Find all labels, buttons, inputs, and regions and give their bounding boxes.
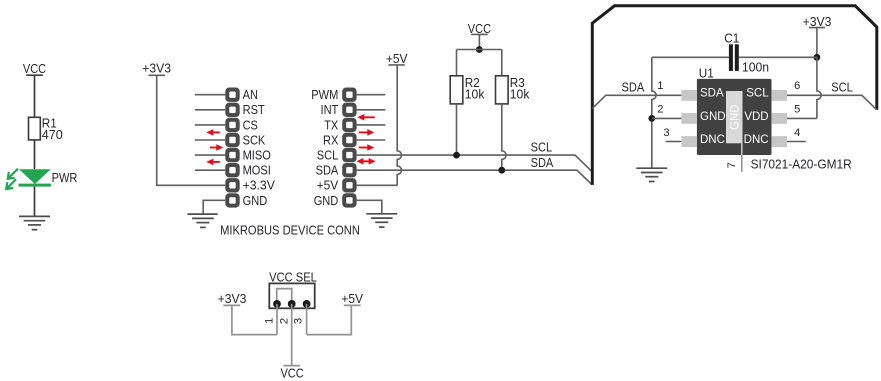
net VCC (power label below jumper)	[280, 366, 303, 381]
svg-text:INT: INT	[321, 102, 339, 117]
chip U1 pad pin6	[771, 90, 787, 101]
net SCL wire (mikrobus to bubble edge)	[357, 155, 592, 171]
node +3V3 rail junction	[814, 54, 821, 61]
svg-text:VCC: VCC	[280, 366, 303, 381]
node R2-SCL junction	[453, 152, 460, 159]
svg-text:7: 7	[726, 162, 738, 168]
svg-text:5: 5	[794, 104, 800, 116]
net VCC (power label over R2 R3)	[468, 21, 491, 36]
connector pin INT (right)	[342, 103, 356, 117]
resistor R1	[29, 116, 63, 142]
direction arrow MOSI (red, left)	[206, 159, 220, 166]
wire top rail right of C1	[739, 56, 817, 58]
direction arrow SDA (red, both ways)	[356, 158, 375, 165]
wire pin 5	[787, 117, 817, 119]
svg-text:MISO: MISO	[243, 148, 271, 163]
wire rail R2-R3	[457, 49, 502, 51]
svg-text:+3V3: +3V3	[218, 291, 247, 306]
wire R2 to SCL	[456, 104, 458, 155]
wire jumper pin 2 down	[291, 304, 293, 366]
capacitor C1	[724, 30, 769, 74]
net +3V3 (power label in bubble)	[803, 14, 832, 29]
svg-text:SCL: SCL	[317, 148, 339, 163]
svg-text:1: 1	[263, 318, 275, 324]
jumper pin 2 dot	[288, 300, 296, 308]
pin labels left column	[243, 87, 276, 208]
svg-text:6: 6	[794, 80, 800, 92]
wire VDD net vertical (hops over SCL)	[817, 57, 821, 118]
svg-text:U1: U1	[699, 66, 714, 81]
jumper pin 1 dot	[273, 300, 281, 308]
svg-text:+3V3: +3V3	[142, 61, 171, 76]
connector pin RST (left)	[225, 103, 239, 117]
chip U1 pad pin3	[681, 136, 697, 147]
wire VCC to rail	[478, 34, 480, 49]
svg-text:+3V3: +3V3	[803, 14, 832, 29]
pin labels right column	[311, 87, 338, 208]
ground (mikrobus left)	[187, 214, 217, 227]
svg-text:4: 4	[794, 127, 800, 139]
connector pin +3.3V (left)	[225, 178, 239, 192]
svg-text:10k: 10k	[465, 87, 485, 102]
resistor R3	[496, 75, 530, 104]
svg-text:+5V: +5V	[317, 178, 339, 193]
svg-text:+3.3V: +3.3V	[243, 178, 276, 193]
jumper pin 3 dot	[303, 300, 311, 308]
wire stub MISO	[195, 154, 226, 156]
direction arrow SCK (red, left)	[206, 129, 220, 136]
connector pin +5V (right)	[342, 178, 356, 192]
svg-text:PWM: PWM	[311, 87, 338, 102]
svg-text:GND: GND	[729, 104, 741, 130]
svg-text:MIKROBUS DEVICE CONN: MIKROBUS DEVICE CONN	[220, 222, 360, 237]
node GND-pin2 junction	[648, 115, 655, 122]
direction arrow TX (red, left)	[357, 114, 375, 121]
wire +3V3 to pin +3.3V	[157, 75, 226, 185]
connector pin MISO (left)	[225, 148, 239, 162]
svg-text:CS: CS	[243, 117, 259, 132]
wire stub RST	[195, 109, 226, 111]
connector pins left column (8 pads)	[0, 0, 1, 1]
wire LED to ground	[34, 187, 36, 217]
svg-text:SCL: SCL	[831, 80, 853, 95]
svg-text:1: 1	[657, 80, 663, 92]
svg-text:+5V: +5V	[386, 51, 408, 66]
svg-text:DNC: DNC	[744, 134, 769, 146]
svg-text:2: 2	[657, 104, 663, 116]
wire stub CS	[195, 124, 226, 126]
connector pin SDA (right)	[342, 163, 356, 177]
net +3V3 (power label at jumper)	[218, 291, 247, 306]
direction arrow RX (red, right)	[359, 129, 375, 136]
net VCC (power label)	[23, 61, 46, 76]
wire rail to R2	[456, 50, 458, 76]
connector pin GND (left)	[225, 193, 239, 207]
node VCC rail junction	[476, 46, 483, 53]
svg-text:470: 470	[42, 127, 63, 142]
direction arrow MISO (red, right)	[210, 144, 224, 151]
resistor R2	[450, 75, 485, 104]
bubble torn-page outline	[592, 6, 877, 185]
svg-text:GND: GND	[314, 193, 339, 208]
wire GND pin to ground (right)	[357, 200, 382, 214]
svg-text:MOSI: MOSI	[243, 163, 271, 178]
wire pin 7 (thermal pad down)	[741, 143, 743, 155]
svg-text:SI7021-A20-GM1R: SI7021-A20-GM1R	[751, 157, 852, 172]
wire R3 to SDA (hops over SCL)	[502, 104, 506, 170]
wire pin 3 stub	[666, 141, 682, 143]
wire pin3 to +5V	[307, 305, 352, 334]
wire +3V3 down to top rail	[816, 28, 818, 58]
svg-text:3: 3	[663, 127, 669, 139]
net +5V (power label at jumper)	[341, 291, 363, 306]
wire jumper pin 1 down	[276, 304, 278, 335]
net +3V3 (power label)	[142, 61, 171, 76]
ground (mikrobus right)	[366, 214, 397, 227]
svg-text:100n: 100n	[742, 60, 769, 75]
connector pin GND (right)	[342, 193, 356, 207]
connector pin MOSI (left)	[225, 163, 239, 177]
svg-text:VDD: VDD	[744, 111, 768, 123]
chip U1 pad pin4	[771, 136, 787, 147]
net SDA inside (edge to pin 1)	[592, 95, 681, 108]
wire top rail left of C1	[652, 56, 729, 58]
connector pin CS (left)	[225, 118, 239, 132]
chip U1 pad pin1	[681, 90, 697, 101]
svg-text:VCC: VCC	[468, 21, 491, 36]
connector pin AN (left)	[225, 88, 239, 102]
net +5V (power label)	[386, 51, 408, 66]
svg-text:RST: RST	[243, 102, 265, 117]
jumper J1 body	[269, 283, 314, 308]
svg-text:PWR: PWR	[52, 170, 78, 185]
net SCL inside (pin 6 to edge)	[787, 95, 877, 110]
wire R1 to LED	[34, 140, 36, 169]
svg-text:C1: C1	[724, 30, 739, 45]
wire stub MOSI	[195, 169, 226, 171]
direction arrow SCL (red, right)	[359, 144, 375, 151]
LED PWR (green)	[6, 169, 77, 189]
ground (bubble)	[636, 168, 667, 181]
wire stub TX	[357, 124, 386, 126]
svg-text:DNC: DNC	[700, 134, 725, 146]
wire pin 2	[652, 117, 682, 119]
svg-text:SCK: SCK	[243, 132, 266, 147]
wire pin1 to +3V3	[232, 305, 277, 334]
svg-text:3: 3	[293, 318, 305, 324]
connector pin TX (right)	[342, 118, 356, 132]
svg-text:VCC: VCC	[23, 61, 46, 76]
connector pins right column (8 pads)	[0, 0, 1, 1]
svg-text:2: 2	[279, 318, 291, 324]
svg-text:SDA: SDA	[316, 163, 339, 178]
wire +5V down to pin (hops over SCL and SDA)	[397, 65, 401, 185]
chip U1 pad pin5	[771, 113, 787, 124]
svg-text:10k: 10k	[510, 87, 530, 102]
net SDA wire (mikrobus to bubble edge)	[357, 170, 592, 185]
connector pin SCK (left)	[225, 133, 239, 147]
svg-text:SDA: SDA	[622, 80, 645, 95]
wire jumper pin 3 down	[306, 304, 308, 335]
wire GND pin to ground	[203, 200, 225, 214]
svg-text:RX: RX	[323, 132, 339, 147]
node R3-SDA junction	[498, 167, 505, 174]
wire stub AN	[195, 94, 226, 96]
wire +5V row to pin	[357, 184, 398, 186]
svg-text:GND: GND	[243, 193, 268, 208]
wire stub RX	[357, 139, 386, 141]
wire stub PWM	[357, 94, 386, 96]
chip U1 thermal pad strip	[726, 91, 743, 143]
chip U1 body	[697, 79, 772, 155]
wire pin 4 stub	[787, 141, 806, 143]
wire stub SCK	[195, 139, 226, 141]
chip U1 pad pin2	[681, 113, 697, 124]
wire stub INT	[357, 109, 386, 111]
wire GND net vertical (hops over SDA)	[652, 57, 656, 168]
connector pin SCL (right)	[342, 148, 356, 162]
ground (LED)	[19, 216, 50, 229]
svg-text:GND: GND	[700, 111, 726, 123]
svg-text:VCC SEL: VCC SEL	[269, 269, 317, 284]
connector pin PWM (right)	[342, 88, 356, 102]
svg-text:+5V: +5V	[341, 291, 363, 306]
svg-text:SCL: SCL	[531, 139, 553, 154]
svg-text:AN: AN	[243, 87, 258, 102]
wire rail to R3	[501, 50, 503, 76]
svg-text:SCL: SCL	[746, 88, 769, 100]
connector pin RX (right)	[342, 133, 356, 147]
svg-text:SDA: SDA	[700, 88, 724, 100]
wire VCC to R1	[34, 75, 36, 117]
jumper bracket pins 1-2	[277, 289, 292, 304]
svg-text:TX: TX	[324, 117, 338, 132]
svg-text:SDA: SDA	[531, 155, 554, 170]
